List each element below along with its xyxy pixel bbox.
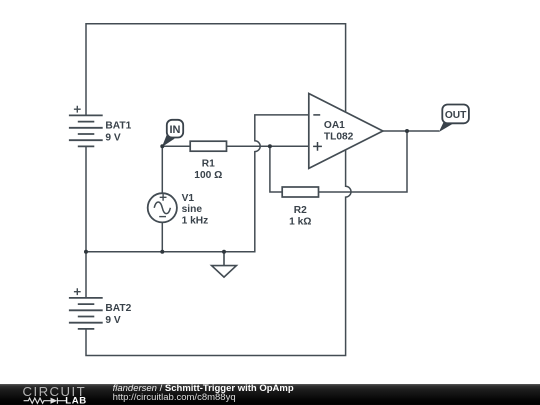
label BAT2 value <box>105 303 131 326</box>
label R2 value <box>289 205 311 227</box>
svg-text:V1: V1 <box>182 193 195 204</box>
svg-text:OUT: OUT <box>445 110 467 121</box>
svg-text:1 kHz: 1 kHz <box>182 215 209 226</box>
svg-text:9 V: 9 V <box>105 315 120 326</box>
node OUT junction <box>405 129 409 133</box>
wire R2 right lead to output node <box>319 131 408 192</box>
svg-text:sine: sine <box>182 204 203 215</box>
resistor R2 <box>282 187 318 197</box>
node junction R1 / R2 / op-amp + input <box>268 144 272 148</box>
wire op-amp output to OUT flag <box>383 130 439 132</box>
wire IN node to V1 plus terminal <box>161 146 163 193</box>
svg-text:OA1: OA1 <box>324 120 345 131</box>
flag IN <box>162 120 183 147</box>
node IN junction <box>160 144 164 148</box>
footer bar <box>0 384 540 405</box>
wire ground rail to op-amp inverting input (hop over R1 output wire) <box>86 115 309 252</box>
wire V+ rail: BAT1 plus up, across top, down to op-amp V+ pin <box>86 24 346 116</box>
wire feedback node down to R2 left lead <box>270 146 282 192</box>
node junction BAT rail / ground rail <box>84 250 88 254</box>
ground <box>212 252 237 277</box>
wire IN node to R1 left lead <box>162 145 190 147</box>
flag OUT <box>439 105 469 133</box>
voltage source V1 <box>148 193 177 222</box>
svg-text:R1: R1 <box>202 158 215 169</box>
svg-text:R2: R2 <box>294 205 307 216</box>
svg-text:TL082: TL082 <box>324 132 354 143</box>
svg-text:LAB: LAB <box>65 396 87 405</box>
battery BAT1 <box>69 106 103 147</box>
CircuitLab logo symbol row: wire, resistor zigzag, diode, LAB <box>0 383 100 405</box>
op-amp OA1 <box>309 94 383 169</box>
node junction V1 minus / ground rail <box>160 250 164 254</box>
svg-text:BAT1: BAT1 <box>105 120 131 131</box>
label V1 value <box>182 193 209 227</box>
label OA1 value <box>324 120 354 143</box>
svg-text:9 V: 9 V <box>105 133 120 144</box>
wire V1 minus terminal to ground rail <box>161 222 163 251</box>
svg-text:1 kΩ: 1 kΩ <box>289 216 311 227</box>
label BAT1 value <box>105 120 131 143</box>
wire BAT1 minus to BAT2 plus <box>85 146 87 298</box>
resistor R1 <box>190 141 226 151</box>
CircuitLab logo wordmark <box>23 385 87 398</box>
footer title line <box>113 384 294 394</box>
node junction ground symbol / ground rail <box>222 250 226 254</box>
svg-text:100 Ω: 100 Ω <box>194 170 222 181</box>
footer url line <box>113 393 236 403</box>
wire R1 right lead to op-amp non-inverting input <box>227 145 309 147</box>
battery BAT2 <box>69 288 103 329</box>
wire V- rail: BAT2 minus down, across bottom, up to op-amp V- pin (hop over R2 wire) <box>86 149 351 355</box>
label R1 value <box>194 158 222 181</box>
svg-text:IN: IN <box>170 124 181 136</box>
svg-text:BAT2: BAT2 <box>105 303 131 314</box>
